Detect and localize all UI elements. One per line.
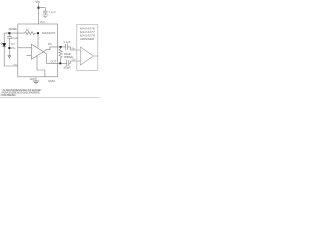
node junction pull-up top [60,46,62,48]
wire FILTER [4,32,24,34]
LED D1 [3,43,6,46]
transistor Q1 output step to VCC pin [43,47,57,52]
svg-text:OUT: OUT [51,60,57,64]
capacitor C3 series plates [66,44,71,50]
wire internal node down to op-amp [37,34,39,48]
wire GND stub [35,77,37,81]
svg-text:100pF: 100pF [63,66,71,70]
svg-text:RS+: RS+ [11,47,16,50]
resistor R2 pull-up zigzag [59,47,62,63]
wire op-amp ground reference [37,56,45,77]
comparator U2 box [77,24,98,70]
node junction OUT [59,62,61,64]
comparator A2 triangle [80,47,93,65]
svg-text:IN+: IN+ [72,48,77,51]
svg-text:RG: RG [48,43,52,46]
svg-text:MAX4378: MAX4378 [80,33,95,37]
wire op-amp output to OUT pin [43,52,57,64]
wire VCC pin out [57,46,65,48]
wire VIN vertical [38,3,40,24]
ground arrow (signal ground) [8,56,11,58]
svg-text:VCC: VCC [40,20,46,24]
svg-text:(FILTER): (FILTER) [9,27,17,31]
capacitor C4 series plates [67,60,71,66]
capacitor C2 filter: wire from FILTER node [8,34,10,36]
wire op-amp +input [18,47,32,49]
svg-text:VIN: VIN [35,0,40,4]
wire op-amp -input [27,55,32,57]
svg-text:NOT CONNECTED.: NOT CONNECTED. [1,93,16,97]
ground under C1 [42,15,48,18]
svg-text:0.1µF: 0.1µF [11,36,18,40]
node junction VIN [38,7,40,9]
svg-text:MAX4372: MAX4372 [42,31,56,35]
svg-text:GND: GND [13,64,18,66]
svg-text:GND1: GND1 [48,80,56,83]
op-amp A1 triangle [31,44,43,59]
wire VIN branch to bypass cap [39,8,46,11]
resistor R1 zigzag [25,32,39,35]
svg-text:+: + [81,51,83,53]
wire to comparator input A [71,47,81,50]
wire C2 to junction [8,38,10,55]
wire OUT pin out [57,62,66,64]
wire LED cathode to GND sense pin [4,47,18,66]
svg-text:AMPLIFIER: AMPLIFIER [79,37,94,41]
wire to comparator input B [71,61,81,63]
node junction internal [37,32,39,34]
capacitor C1 0.1uF bypass [43,11,48,15]
node junction LED/C2 [8,47,10,49]
node junction FILTER [8,32,10,34]
op-amp U1 box (MAX4372) [18,24,58,77]
svg-text:+: + [32,48,34,50]
LED D1 arrows [0,42,2,45]
svg-text:IN-: IN- [72,59,76,62]
svg-text:0.1µF: 0.1µF [49,10,56,14]
svg-text:GND: GND [30,78,36,81]
wire LED drop [3,33,5,43]
ground symbol under box [33,81,39,84]
svg-text:0.1µF: 0.1µF [64,40,71,44]
svg-text:-: - [81,61,82,63]
bottom rule [0,97,100,99]
capacitor C2 plates [7,37,11,39]
wire A2 output [93,55,98,57]
svg-text:N.C.: N.C. [11,43,16,46]
